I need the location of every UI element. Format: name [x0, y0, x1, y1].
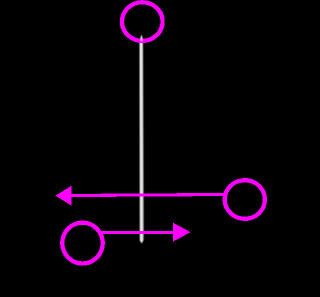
wire: left force arrow shaft: [71, 195, 224, 196]
wire: string tip overlapping top ball rim: [140, 35, 142, 41]
arrowhead: left force arrow: [55, 186, 71, 206]
node: right ball: [225, 180, 265, 219]
wire: vertical string from top ball: [139, 34, 143, 243]
wire: right force arrow shaft: [99, 231, 174, 234]
arrowhead: right force arrow: [173, 223, 190, 242]
node: top ball: [122, 2, 163, 41]
node: bottom ball: [62, 223, 102, 264]
